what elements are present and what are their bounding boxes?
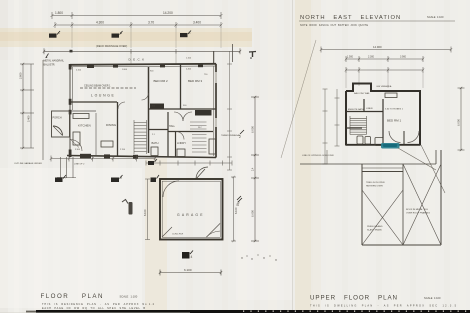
svg-text:A: A <box>58 31 60 35</box>
svg-text:OVER ROOF FRAMING: OVER ROOF FRAMING <box>406 212 430 215</box>
door arc laundry <box>176 132 184 140</box>
upper dim row 1 <box>345 56 424 62</box>
svg-text:B: B <box>120 176 122 180</box>
site boundary diagonal <box>281 40 316 158</box>
bedroom bottom wall <box>148 108 216 110</box>
svg-text:1.800: 1.800 <box>55 11 63 15</box>
svg-text:HALL: HALL <box>169 125 176 128</box>
svg-text:A: A <box>64 176 66 180</box>
wardrobe bed2 <box>150 104 164 109</box>
svg-text:4.300: 4.300 <box>96 21 104 25</box>
teal highlight mark <box>381 143 400 149</box>
svg-text:BALCONY RAIL: BALCONY RAIL <box>354 92 371 95</box>
svg-text:1.800: 1.800 <box>122 69 128 71</box>
svg-text:SCALE 1:100: SCALE 1:100 <box>120 295 138 299</box>
left wall piers <box>69 64 72 70</box>
small slash mark <box>46 54 49 58</box>
svg-text:3.900: 3.900 <box>400 56 407 59</box>
light washes <box>0 168 142 308</box>
leader line from plan corner <box>421 145 445 193</box>
upper dim row 2 <box>345 67 424 88</box>
svg-text:14.200: 14.200 <box>163 11 173 15</box>
garage left dimension <box>145 179 150 240</box>
svg-text:ROOF IN METAL TILE: ROOF IN METAL TILE <box>406 208 428 211</box>
svg-text:SCALE 1:100: SCALE 1:100 <box>424 296 441 300</box>
roof divider <box>402 164 404 245</box>
pencil mark T centre top <box>249 52 256 59</box>
roof cross left <box>362 190 403 245</box>
svg-text:LOUNGE: LOUNGE <box>91 94 116 98</box>
top dimension line row 1 <box>51 12 223 19</box>
bath fixtures <box>151 139 216 157</box>
garage inner wall line <box>162 181 220 237</box>
right dimension line upper <box>458 87 465 151</box>
garage door swing bottom right <box>206 223 221 238</box>
svg-text:2.300: 2.300 <box>368 56 375 59</box>
garage right dimension <box>231 176 236 242</box>
svg-text:TRELLIS IN OPEN: TRELLIS IN OPEN <box>366 182 385 184</box>
svg-text:LINE OF 2: LINE OF 2 <box>74 164 85 166</box>
marker B flag centre <box>237 198 243 207</box>
svg-text:LINEN: LINEN <box>366 108 373 110</box>
deck left tick <box>326 150 328 164</box>
svg-text:3.300: 3.300 <box>75 149 81 151</box>
garage inner corner arc <box>163 181 179 197</box>
upper door arc 1 <box>389 131 401 143</box>
svg-text:THIS IS RESIDENCE PLAN -: THIS IS RESIDENCE PLAN - AS PER APPROX N… <box>42 303 155 306</box>
section marker C bottom <box>151 175 160 182</box>
kitchen top bench line <box>71 110 97 112</box>
left boundary line <box>42 60 44 160</box>
door arc dining <box>118 102 125 109</box>
svg-text:EACH PAGE OF DW RQ TO AL: EACH PAGE OF DW RQ TO ALL SPEC SHE LEVEL… <box>42 307 145 310</box>
kitchen inner partition <box>95 113 97 155</box>
svg-text:2.100: 2.100 <box>76 70 82 72</box>
roof cross right <box>403 164 441 245</box>
svg-text:14.900: 14.900 <box>373 45 382 49</box>
svg-text:(DECK DRAINAGE OVER): (DECK DRAINAGE OVER) <box>96 44 127 48</box>
svg-text:6.100: 6.100 <box>184 268 192 272</box>
step to plan corner <box>435 150 437 164</box>
svg-text:SLATS TRANS: SLATS TRANS <box>367 229 382 232</box>
garage door swing <box>196 167 208 179</box>
svg-text:2: 2 <box>239 135 241 139</box>
svg-text:D.E.C.K: D.E.C.K <box>129 58 145 62</box>
upper plan interior walls <box>346 99 383 145</box>
upper plan inner left dim line <box>335 89 340 146</box>
svg-text:NOTE ROOF FASCIA OUT BATTE: NOTE ROOF FASCIA OUT BATTEN JOIN QUOTE <box>300 24 368 27</box>
upper bath fixtures <box>357 93 397 146</box>
deck corner tick <box>70 50 73 53</box>
linen shelves hatch <box>190 122 207 152</box>
upper door arc 2 <box>408 131 420 143</box>
fold line <box>292 0 294 313</box>
svg-text:CEILING BEAM OVER 1: CEILING BEAM OVER 1 <box>84 85 111 88</box>
top dimension line row 2 <box>54 22 223 48</box>
wardrobe bed3 <box>195 110 212 116</box>
kitchen door arc <box>71 140 83 152</box>
section marker C top <box>180 31 192 38</box>
porch <box>52 111 70 137</box>
svg-text:BATH: BATH <box>152 141 159 145</box>
svg-text:6.000: 6.000 <box>457 119 461 126</box>
svg-text:LINE OF UPPER FLOOR OVER: LINE OF UPPER FLOOR OVER <box>302 155 334 157</box>
pencil mark 1 below kitchen <box>122 200 132 215</box>
section marker B bottom <box>111 175 123 182</box>
top wall window piers <box>87 65 94 68</box>
right wall window gaps <box>215 72 217 83</box>
upper plan outer walls <box>346 84 420 146</box>
svg-text:THIS IS DWELLING PLAN - A: THIS IS DWELLING PLAN - AS PER APPROX SE… <box>310 305 457 308</box>
stairs ground floor <box>134 120 147 154</box>
svg-text:UPPER FLOOR PLAN: UPPER FLOOR PLAN <box>310 295 398 302</box>
wall stub between doors <box>403 131 405 145</box>
ceiling beam over (dashed) <box>80 87 136 89</box>
marker 2 flag centre <box>239 130 244 139</box>
section marker B top <box>112 31 123 38</box>
section marker garage row <box>148 159 157 165</box>
lounge bottom wall <box>71 101 118 103</box>
svg-text:NORTH EAST ELEVATION: NORTH EAST ELEVATION <box>300 15 401 21</box>
svg-text:1.100: 1.100 <box>186 58 192 60</box>
leader line from teal mark <box>398 148 436 170</box>
svg-text:METAL HANDRAIL: METAL HANDRAIL <box>44 60 65 63</box>
svg-text:6.600: 6.600 <box>251 210 255 217</box>
warm vertical fold band centre <box>295 0 311 313</box>
svg-text:5.400: 5.400 <box>27 115 31 122</box>
svg-text:SCALE 1:100: SCALE 1:100 <box>427 15 444 19</box>
hall wall <box>148 67 150 153</box>
door arc hall to bath <box>174 112 183 121</box>
svg-text:BALUSTR.: BALUSTR. <box>44 64 56 67</box>
title underline <box>299 20 455 22</box>
svg-text:CONC FLR: CONC FLR <box>172 234 184 236</box>
house outer walls <box>67 51 216 157</box>
svg-text:6.000: 6.000 <box>251 126 255 133</box>
kitchen/dining dividing wall <box>117 102 119 157</box>
garage dimension row above <box>146 161 232 166</box>
centre vertical dimension line <box>251 96 259 242</box>
svg-text:6.100: 6.100 <box>143 209 147 216</box>
right of plan dimension line <box>227 51 232 170</box>
svg-text:BED RM 1: BED RM 1 <box>387 119 402 123</box>
porch steps below <box>57 157 76 178</box>
bottom wall piers <box>80 154 91 159</box>
below-house dimension line <box>50 156 156 162</box>
svg-text:1.500: 1.500 <box>347 56 354 59</box>
pencil scribbles <box>241 254 276 260</box>
left vertical dimension line pair <box>20 63 34 149</box>
black film strip bottom <box>36 310 470 313</box>
warm tint band top-left <box>0 28 252 47</box>
section marker A top <box>49 31 60 38</box>
section marker A bottom <box>55 175 66 182</box>
deck outer line <box>43 48 241 54</box>
roof area outline <box>362 150 441 245</box>
warm vertical band through garage <box>145 158 167 313</box>
tiny dim texts clutter <box>75 69 208 152</box>
svg-text:FLOOR PLAN: FLOOR PLAN <box>41 293 104 300</box>
svg-text:600 VERANDA: 600 VERANDA <box>377 85 392 88</box>
svg-text:DINING: DINING <box>106 123 117 127</box>
svg-text:2.600: 2.600 <box>19 72 23 79</box>
svg-text:PERGOLA AND: PERGOLA AND <box>367 225 383 228</box>
upper top long dimension <box>320 47 452 53</box>
film strip ticks <box>243 311 466 312</box>
svg-text:OUTLINE GARAGE UNDER: OUTLINE GARAGE UNDER <box>14 162 42 165</box>
upper plan left outer dim line <box>323 89 328 164</box>
garage bottom dimension 6.100 <box>159 270 222 276</box>
svg-text:LNDRY: LNDRY <box>177 141 186 145</box>
svg-text:PORCH: PORCH <box>53 117 62 120</box>
svg-text:2.700: 2.700 <box>120 149 126 151</box>
svg-text:3.60 TO ROBES 1: 3.60 TO ROBES 1 <box>385 109 404 111</box>
svg-text:PATTERN OVER: PATTERN OVER <box>366 185 383 188</box>
bedroom divider wall <box>180 64 182 109</box>
upper stairs <box>350 116 367 135</box>
kitchen bench fixtures <box>73 114 113 148</box>
svg-text:BED RM 2: BED RM 2 <box>154 79 169 83</box>
svg-text:W.C: W.C <box>198 127 202 129</box>
svg-text:ENSUITE BATH: ENSUITE BATH <box>348 108 364 111</box>
door arc hall top <box>142 93 149 100</box>
trellis band lines <box>362 167 403 169</box>
svg-text:TIMBER VERANDAH: TIMBER VERANDAH <box>221 134 241 137</box>
garage walls <box>160 179 223 240</box>
svg-text:KITCHEN: KITCHEN <box>78 124 91 128</box>
door arc hall to bed3 <box>183 112 192 121</box>
svg-text:3.70: 3.70 <box>148 21 154 25</box>
deck right edge <box>232 44 234 62</box>
deck tick verticals <box>130 51 132 63</box>
svg-text:B: B <box>120 31 122 35</box>
deck line below upper plan <box>300 163 436 165</box>
svg-text:3.400: 3.400 <box>193 21 201 25</box>
svg-text:2.400: 2.400 <box>186 69 192 71</box>
svg-text:1.350: 1.350 <box>150 106 156 108</box>
marker B right of garage <box>237 196 241 205</box>
svg-text:BED RM 3: BED RM 3 <box>188 79 203 83</box>
svg-text:6.100: 6.100 <box>234 207 238 214</box>
garage corner diagonal <box>162 227 172 237</box>
svg-text:GARAGE: GARAGE <box>177 213 205 217</box>
marker 4 below garage <box>182 251 193 260</box>
svg-text:4: 4 <box>191 255 193 259</box>
lower rooms walls <box>148 112 213 157</box>
